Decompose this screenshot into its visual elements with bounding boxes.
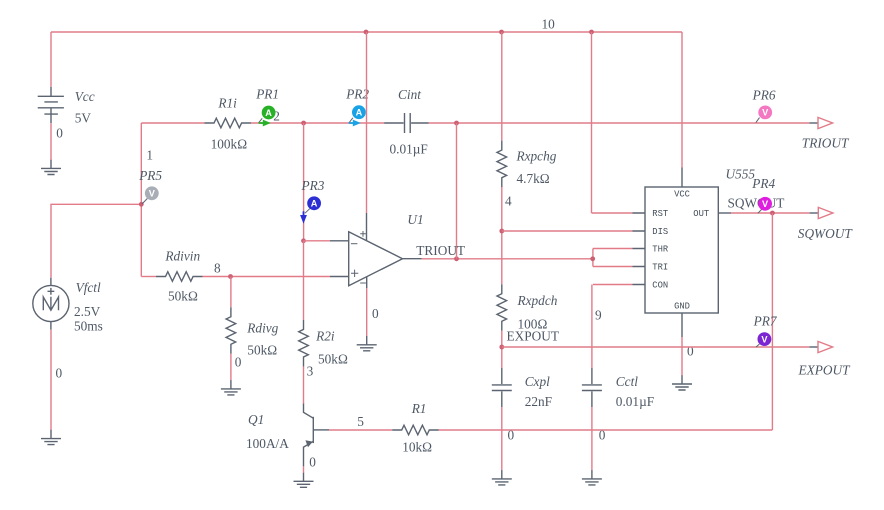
svg-text:Cxpl: Cxpl — [525, 374, 550, 389]
wire op-amp VEE to ground — [366, 288, 368, 336]
svg-text:A: A — [311, 199, 318, 209]
wire battery to ground — [50, 123, 52, 160]
junction top rail x501 — [499, 30, 504, 35]
svg-text:U1: U1 — [407, 212, 423, 227]
junction output feedback — [454, 256, 459, 261]
ground (op-amp) — [357, 336, 377, 351]
transistor Q1 — [304, 404, 330, 467]
svg-text:R1: R1 — [411, 401, 427, 416]
svg-text:100A/A: 100A/A — [246, 436, 289, 451]
svg-text:PR6: PR6 — [752, 88, 776, 103]
wire THR — [593, 248, 633, 250]
junction Cint right / feedback — [454, 121, 459, 126]
svg-text:50kΩ: 50kΩ — [247, 342, 277, 357]
wire U555 GND to ground — [681, 337, 683, 375]
probe PR3 current — [300, 178, 325, 224]
wire RST — [592, 212, 633, 214]
svg-text:0: 0 — [235, 355, 242, 370]
wire Q1 emitter to ground — [303, 466, 305, 473]
wire battery top to rail — [50, 32, 52, 87]
wire Cctl to ground — [591, 407, 593, 470]
svg-text:TRIOUT: TRIOUT — [416, 243, 465, 258]
svg-text:4.7kΩ: 4.7kΩ — [517, 171, 550, 186]
svg-text:EXPOUT: EXPOUT — [798, 363, 852, 378]
svg-text:50kΩ: 50kΩ — [168, 289, 198, 304]
svg-text:Q1: Q1 — [248, 412, 264, 427]
wire CON drop to Cctl — [591, 285, 593, 369]
probe PR6 — [752, 88, 776, 123]
svg-text:PR4: PR4 — [751, 176, 775, 191]
wire R1 to OUT drop — [439, 429, 773, 431]
wire THR-TRI link — [592, 249, 594, 267]
svg-text:Vcc: Vcc — [75, 89, 95, 104]
capacitor Cctl — [582, 368, 602, 407]
svg-text:10kΩ: 10kΩ — [402, 440, 432, 455]
svg-text:22nF: 22nF — [525, 394, 552, 409]
resistor R2i — [299, 320, 309, 367]
probe PR7 — [753, 313, 778, 347]
svg-text:SQWOUT: SQWOUT — [728, 195, 785, 210]
wire Vfctl to ground — [50, 330, 52, 430]
svg-text:5V: 5V — [75, 111, 92, 126]
resistor R1i — [205, 118, 252, 128]
wire R1i to Cint — [251, 122, 384, 124]
resistor Rxpchg — [497, 141, 507, 188]
ground (battery) — [41, 160, 61, 175]
ground (Vfctl) — [41, 430, 61, 445]
svg-text:4: 4 — [505, 194, 512, 209]
svg-text:0: 0 — [56, 366, 63, 381]
svg-text:V: V — [149, 189, 156, 199]
junction DIS node — [499, 229, 504, 234]
wire top VCC rail — [51, 31, 682, 33]
wire node 1 vertical — [140, 123, 142, 277]
svg-text:U555: U555 — [726, 167, 756, 182]
svg-text:50kΩ: 50kΩ — [318, 352, 348, 367]
svg-text:EXPOUT: EXPOUT — [507, 329, 559, 344]
resistor R1 — [392, 425, 439, 435]
svg-text:0: 0 — [687, 344, 694, 359]
svg-text:R2i: R2i — [315, 329, 335, 344]
svg-text:THR: THR — [652, 245, 669, 255]
probe PR4 — [751, 176, 775, 213]
junction top rail x366 — [364, 30, 369, 35]
svg-text:1: 1 — [146, 147, 153, 162]
svg-text:V: V — [762, 199, 769, 209]
source Vfctl — [33, 278, 69, 330]
wire node8 down to Rdivg — [230, 277, 232, 308]
svg-text:0: 0 — [372, 306, 379, 321]
svg-text:PR1: PR1 — [255, 87, 279, 102]
wire node 2 down to minus input — [303, 123, 305, 241]
svg-text:TRIOUT: TRIOUT — [802, 135, 850, 150]
junction minus input node — [301, 238, 306, 243]
svg-text:A: A — [265, 108, 272, 118]
junction top rail x591 — [589, 30, 594, 35]
junction node 8 — [228, 274, 233, 279]
wire to op-amp inverting input — [304, 240, 331, 242]
svg-text:8: 8 — [214, 260, 221, 275]
svg-text:Cint: Cint — [398, 87, 421, 102]
wire feedback vertical Cint right — [456, 123, 458, 259]
wire VCC rail corner down to U555 VCC pin — [681, 32, 683, 168]
svg-text:CON: CON — [652, 281, 668, 291]
wire Cint to TRIOUT flag — [429, 122, 810, 124]
svg-text:VCC: VCC — [674, 190, 690, 200]
probe PR1 current — [255, 87, 279, 127]
ground (U555) — [672, 375, 692, 390]
ground (Q1) — [294, 473, 314, 488]
capacitor Cxpl — [492, 368, 512, 407]
wire main integrator input segment — [141, 122, 204, 124]
wire OUT down to base drive — [771, 213, 773, 430]
svg-text:5: 5 — [357, 414, 364, 429]
svg-text:Rxpchg: Rxpchg — [516, 149, 557, 164]
svg-text:GND: GND — [674, 302, 690, 312]
ground (Cctl) — [582, 470, 602, 485]
wire VCC drop to RST — [591, 32, 593, 213]
junction PR5 node — [139, 202, 144, 207]
resistor Rdivin — [156, 272, 203, 282]
capacitor Cint — [384, 113, 429, 133]
wire EXPOUT run — [502, 346, 810, 348]
wire Rdivin to op-amp plus input — [202, 276, 330, 278]
wire Rxpdch to EXPOUT node — [501, 331, 503, 368]
junction node 2 to PR3 branch — [301, 121, 306, 126]
svg-text:0.01µF: 0.01µF — [390, 142, 428, 157]
svg-text:V: V — [761, 334, 768, 344]
wire PR5 branch to Vfctl — [51, 204, 141, 277]
output flag TRIOUT — [809, 117, 832, 128]
svg-text:100kΩ: 100kΩ — [211, 136, 248, 151]
wire R2i to Q1 collector — [303, 366, 305, 404]
wire node1 to Rdivin — [141, 276, 156, 278]
svg-text:9: 9 — [595, 308, 602, 323]
wire Rxpchg to Rxpdch — [501, 187, 503, 284]
wire VCC drop to Rxpchg — [501, 32, 503, 141]
svg-text:0: 0 — [309, 454, 316, 469]
wire CON — [593, 284, 633, 286]
svg-text:10: 10 — [542, 17, 556, 32]
svg-text:PR3: PR3 — [301, 178, 325, 193]
svg-text:A: A — [356, 108, 363, 118]
svg-text:Cctl: Cctl — [616, 374, 638, 389]
junction TRIOUT to THR/TRI — [590, 256, 595, 261]
resistor Rxpdch — [497, 284, 507, 331]
svg-text:0: 0 — [56, 125, 63, 140]
junction EXPOUT node — [499, 345, 504, 350]
svg-text:R1i: R1i — [217, 95, 237, 110]
svg-text:50ms: 50ms — [74, 319, 103, 334]
svg-text:0.01µF: 0.01µF — [616, 394, 654, 409]
wire node2 down to R2i — [303, 241, 305, 320]
svg-text:Rdivg: Rdivg — [246, 321, 278, 336]
wire VCC drop to op-amp supply — [366, 32, 368, 213]
junction OUT node — [770, 211, 775, 216]
ground (Rdivg) — [221, 380, 241, 395]
resistor Rdivg — [226, 307, 236, 354]
wire Q1 base to R1 — [329, 429, 392, 431]
wire OUT to SQWOUT flag — [731, 212, 810, 214]
svg-text:OUT: OUT — [693, 209, 709, 219]
wire DIS — [502, 230, 633, 232]
svg-text:PR7: PR7 — [753, 313, 778, 328]
svg-text:DIS: DIS — [652, 227, 668, 237]
battery Vcc — [38, 87, 64, 123]
probe PR5 — [138, 168, 162, 204]
output flag SQWOUT — [810, 207, 833, 218]
wire TRI — [593, 266, 633, 268]
output flag EXPOUT — [809, 341, 832, 352]
svg-text:Vfctl: Vfctl — [76, 280, 101, 295]
wire Cxpl to ground — [501, 407, 503, 470]
svg-text:Rdivin: Rdivin — [164, 249, 200, 264]
wire Rdivg to ground — [230, 354, 232, 381]
svg-text:TRI: TRI — [652, 263, 668, 273]
svg-text:PR5: PR5 — [138, 168, 162, 183]
svg-text:Rxpdch: Rxpdch — [517, 293, 558, 308]
ground (Cxpl) — [492, 470, 512, 485]
svg-text:V: V — [762, 108, 769, 118]
svg-text:RST: RST — [652, 209, 668, 219]
svg-text:2.5V: 2.5V — [74, 304, 101, 319]
svg-text:3: 3 — [307, 364, 314, 379]
svg-text:SQWOUT: SQWOUT — [798, 226, 854, 241]
probe PR2 current — [345, 87, 369, 127]
op-amp U1 — [330, 213, 422, 288]
wire op-amp output TRIOUT — [422, 258, 593, 260]
IC U555 timer — [633, 168, 732, 338]
